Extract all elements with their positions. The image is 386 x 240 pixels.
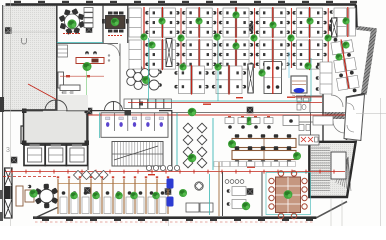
bottom-right diagonal [317,202,348,218]
wall x172 [171,110,173,171]
wall x103 [102,5,104,43]
round table [59,8,86,35]
power line [161,39,163,70]
plant [130,192,138,200]
power line [309,39,311,70]
terrace [344,95,365,141]
column [165,188,172,195]
plant [29,189,37,197]
cabinet strip [214,162,295,167]
plant [115,192,123,200]
reception desk red [60,51,110,77]
desk cluster [293,7,327,38]
wall x310.5 [310,112,312,172]
wall x88 [87,108,89,170]
column [166,24,173,31]
desk cluster [145,7,179,38]
plant [335,53,342,60]
plant [152,192,160,200]
toilets [101,113,168,138]
left edge stubs [0,190,3,199]
desk cluster [145,39,179,70]
plant [242,202,250,210]
angled desks [330,35,360,94]
plant [232,42,239,49]
plant [83,62,92,71]
wc fixtures [297,98,309,110]
cafeteria tables [232,134,296,151]
plant [188,108,197,117]
desk cluster [212,65,246,95]
teal loop [149,38,312,101]
plant [213,33,220,40]
desk cluster [174,65,208,95]
plant [304,62,311,69]
power line [228,65,230,95]
green cable [86,68,88,110]
plant [269,21,276,28]
wall x127.8 [127,5,129,43]
SE stairwell [309,142,355,197]
desk cluster [256,39,290,70]
bottom-left diagonal [34,208,58,219]
diamond cabinets row [73,170,108,179]
flower pod [127,65,150,90]
bottom middle area [195,182,203,190]
bench [58,72,80,94]
chair circles row [146,165,179,170]
right diagonal facade [361,28,377,95]
power line [235,7,237,38]
desk cluster [293,39,327,70]
elevator bank [24,144,45,165]
central staircase [112,142,163,167]
power line [272,39,274,70]
service core room [24,110,88,144]
bottom-left office [16,185,34,206]
plant [179,63,186,70]
step wall right [346,94,365,98]
plant [140,33,147,40]
desk cluster [256,7,290,38]
power line [198,7,200,38]
plant [258,69,265,76]
pod circles column [149,67,162,90]
desk cluster [219,7,253,38]
service rooms right [322,92,324,145]
plant [293,152,301,160]
wall y43 [57,43,118,45]
plant [195,17,202,24]
power line [161,7,163,38]
kitchenette [299,135,319,145]
shelf [58,45,68,57]
plant [70,192,78,200]
conference table [102,12,129,33]
plant [67,19,76,28]
media room desks [225,180,246,209]
wall y110 segments [3,110,43,112]
plant [250,34,257,41]
phone pod [291,76,307,100]
u glyph [22,38,27,44]
column [247,107,254,114]
plant [177,34,184,41]
desk cluster [182,7,216,38]
tall cabinets [166,39,172,67]
entry doors [45,100,67,111]
plant [92,192,100,200]
column [247,188,254,195]
column [5,27,12,34]
plant [287,34,294,41]
right desk column [316,62,332,94]
plant [284,190,293,199]
lounge seats [183,123,207,168]
door arc lobby [108,44,120,56]
column [86,108,93,115]
water coolers [167,179,174,207]
SE conference [266,173,311,215]
plant [148,41,155,48]
left edge block [0,97,4,112]
power line [272,7,274,38]
plant [228,140,236,148]
top wall [6,3,357,6]
power line [235,39,237,70]
plant [188,154,197,163]
wall x120 lounge/office [119,44,121,111]
top-right hatched band [352,25,376,32]
plant [111,18,119,26]
right wall desk column [330,7,356,37]
kitchen cabinets [124,99,172,109]
left boundary [2,5,4,218]
column [86,26,93,33]
plant [342,17,349,24]
wall x56.8 [56,5,58,111]
svg-text:3: 3 [6,147,10,154]
braced pier [5,168,13,218]
desk cluster [219,39,253,70]
red runs [128,102,322,104]
column [11,157,18,164]
lockers [84,8,93,28]
plant [179,189,187,197]
plant [245,117,254,126]
small desks above cafeteria [228,116,270,118]
plant [142,76,150,84]
teal border [209,174,211,215]
right wall upper [355,5,358,27]
round table 6 [35,184,59,209]
half column left [129,8,141,69]
vestibule mat [58,95,89,110]
plant [232,11,239,18]
power line [309,7,311,38]
power line [198,39,200,70]
desk bays [57,176,169,214]
column [329,24,336,31]
terrace outer edge [361,95,365,142]
column [247,24,254,31]
plant [214,63,221,70]
column [84,187,91,194]
plant [324,34,331,41]
hatched adjacent tenancy top-left [3,6,57,111]
boxed quad cluster [264,61,282,94]
plant [342,41,349,48]
plant [306,17,313,24]
media room walls [222,172,224,216]
plant [158,17,165,24]
bottom wall [33,216,317,219]
desk cluster [182,39,216,70]
power line [191,65,193,95]
